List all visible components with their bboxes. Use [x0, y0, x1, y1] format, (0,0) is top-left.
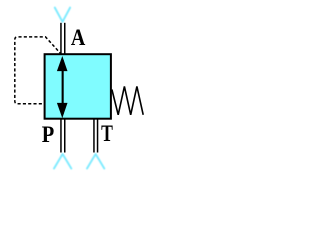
- open connection marker (cyan chevron) at port A: [55, 8, 70, 22]
- valve body V1 (2-way valve square): [45, 54, 111, 119]
- open connection marker (cyan chevron) at port T: [87, 154, 104, 169]
- port A connection line (double): [61, 23, 65, 54]
- svg-text:T: T: [101, 121, 113, 147]
- port T connection line (double): [94, 119, 98, 153]
- svg-text:P: P: [42, 121, 54, 148]
- flow path arrow (double-headed, A to P) inside valve body: [57, 56, 68, 118]
- port P connection line (double): [61, 119, 65, 153]
- return spring on right side of valve: [112, 86, 143, 114]
- svg-text:A: A: [71, 25, 86, 51]
- pilot line (dashed) from port A around to left side of valve: [15, 37, 62, 104]
- open connection marker (cyan chevron) at port P: [54, 154, 71, 169]
